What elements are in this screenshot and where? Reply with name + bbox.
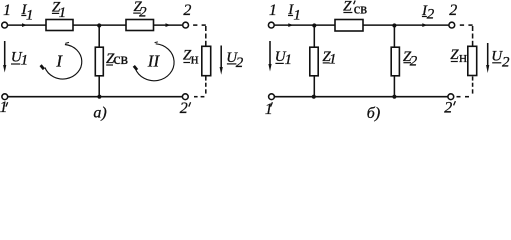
svg-text:1: 1 bbox=[59, 5, 67, 21]
resistor Z2 (box) bbox=[126, 20, 154, 31]
resistor Zsv (box) bbox=[95, 47, 103, 76]
svg-text:1: 1 bbox=[26, 8, 34, 24]
current arrow to 2 bbox=[166, 23, 171, 27]
svg-text:2: 2 bbox=[180, 100, 188, 117]
svg-text:1: 1 bbox=[0, 99, 8, 116]
wire Zsv' to terminal 2 bbox=[363, 24, 449, 26]
svg-text:1: 1 bbox=[329, 52, 337, 68]
label Zsv' bbox=[343, 0, 352, 15]
dashed wire 2 to Zn top bbox=[460, 25, 473, 45]
label U2 bbox=[491, 49, 510, 71]
terminal 1' bbox=[269, 94, 275, 100]
junction node bottom bbox=[97, 95, 101, 99]
current arrow I1 bbox=[22, 23, 27, 27]
label Z1 bbox=[322, 49, 336, 68]
load Zn (box) bbox=[202, 46, 211, 75]
junction node bottom Z2 bbox=[392, 95, 396, 99]
dashed wire Zn bottom to 2' bbox=[457, 77, 473, 97]
label Z2 bbox=[403, 49, 418, 69]
dashed wire Zn bottom to 2' bbox=[194, 77, 206, 97]
label Zn bbox=[450, 47, 467, 66]
voltage arrow U1 bbox=[268, 41, 271, 72]
load Zn (box) bbox=[468, 46, 477, 75]
resistor Z1 (box) bbox=[46, 20, 73, 31]
wire Zsv branch bottom bbox=[98, 77, 100, 97]
svg-text:2: 2 bbox=[236, 55, 244, 71]
svg-text:н: н bbox=[191, 51, 199, 67]
junction node bottom Z1 bbox=[312, 95, 316, 99]
mesh current I arc bbox=[41, 42, 82, 79]
resistor Z1 (box) bbox=[310, 47, 318, 76]
current arrow I1 bbox=[288, 23, 293, 27]
resistor Z2 (box) bbox=[391, 47, 399, 76]
wire 1 to Z1 bbox=[8, 24, 46, 26]
wire Z2 branch bottom bbox=[393, 77, 395, 97]
svg-text:2: 2 bbox=[410, 54, 418, 70]
svg-text:св: св bbox=[354, 2, 367, 18]
label I1 bbox=[21, 2, 34, 23]
svg-text:2: 2 bbox=[183, 2, 191, 19]
svg-text:1: 1 bbox=[21, 53, 29, 69]
wire Z2 to terminal 2 bbox=[154, 24, 183, 26]
mesh current II arc bbox=[134, 42, 174, 81]
svg-text:2: 2 bbox=[449, 2, 457, 19]
dashed wire 2 to Zn top bbox=[193, 25, 206, 45]
svg-text:2: 2 bbox=[427, 6, 435, 22]
svg-text:2: 2 bbox=[502, 55, 510, 71]
svg-text:Z: Z bbox=[450, 47, 459, 63]
label I2 bbox=[421, 3, 435, 22]
wire 1 to Zsv' bbox=[274, 24, 335, 26]
label Zn bbox=[183, 48, 199, 68]
svg-text:2: 2 bbox=[444, 100, 452, 117]
wire Z1 branch top bbox=[313, 25, 315, 46]
terminal 1' bbox=[2, 94, 8, 100]
wire bottom 1' to 2' bbox=[8, 96, 183, 98]
svg-text:1: 1 bbox=[293, 7, 301, 23]
terminal 2 bbox=[449, 22, 455, 28]
wire Z1 to Z2 bbox=[73, 24, 126, 26]
wire Z1 branch bottom bbox=[313, 77, 315, 97]
svg-text:н: н bbox=[459, 50, 467, 66]
voltage arrow U1 bbox=[3, 41, 6, 73]
voltage arrow U2 bbox=[220, 46, 223, 75]
wire Zsv branch top bbox=[98, 25, 100, 46]
label Zsv bbox=[106, 51, 129, 68]
terminal 2 bbox=[183, 22, 189, 28]
svg-text:б): б) bbox=[367, 105, 380, 122]
current arrow I2 bbox=[422, 23, 427, 27]
wire bottom 1' to 2' bbox=[275, 96, 448, 98]
label U1 bbox=[11, 50, 28, 69]
resistor Zsv' (box) bbox=[335, 20, 363, 32]
svg-text:св: св bbox=[113, 51, 128, 68]
svg-text:1: 1 bbox=[3, 2, 11, 19]
label U1 bbox=[275, 49, 292, 68]
svg-text:I: I bbox=[55, 51, 63, 70]
terminal 1 bbox=[2, 22, 8, 28]
label I1 bbox=[287, 2, 301, 23]
voltage arrow U2 bbox=[486, 43, 489, 73]
terminal 2' bbox=[182, 94, 188, 100]
junction node top Z1 bbox=[312, 23, 316, 27]
svg-text:II: II bbox=[147, 51, 161, 70]
junction node top Z2 bbox=[392, 23, 396, 27]
label U2 bbox=[226, 50, 243, 71]
svg-text:а): а) bbox=[93, 104, 106, 121]
label Z1 bbox=[52, 0, 66, 21]
label Z2 bbox=[134, 0, 148, 21]
terminal 1 bbox=[268, 22, 274, 28]
junction node top bbox=[97, 23, 101, 27]
svg-text:1: 1 bbox=[285, 52, 293, 68]
svg-text:1: 1 bbox=[269, 2, 277, 19]
wire Z2 branch top bbox=[393, 25, 395, 46]
terminal 2' bbox=[448, 94, 454, 100]
